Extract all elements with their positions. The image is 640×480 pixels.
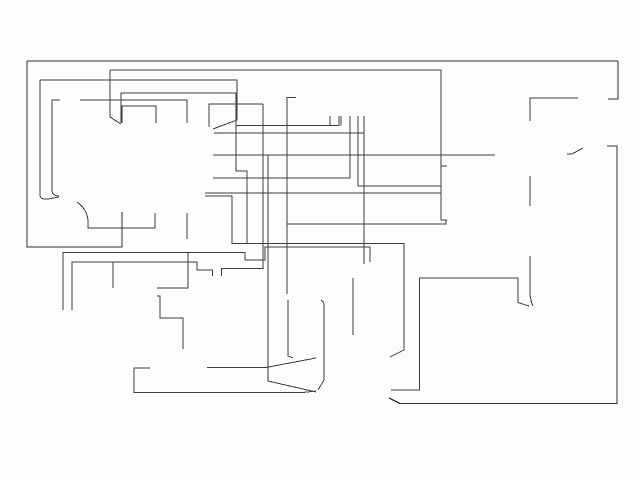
wire OR 14 from timer <box>121 93 247 244</box>
wire YL 45 <box>77 202 155 228</box>
wire OR 20 <box>110 70 441 220</box>
wire WH 22 <box>287 220 446 224</box>
wire EC pin4 lead <box>340 116 342 126</box>
wire N riser <box>72 262 213 310</box>
wire GY 12 <box>157 296 183 349</box>
wire Y-BK 49 top <box>122 106 156 123</box>
wire BK 40 <box>157 253 188 289</box>
wire RD 18 <box>358 116 441 186</box>
wire display feed bottom <box>441 219 447 221</box>
wire WH 38 <box>567 148 583 154</box>
wire OR 14 EC edge connector <box>287 98 296 295</box>
wire EC pin1 lead <box>329 116 331 126</box>
wire RD 42 <box>530 98 578 121</box>
wire OR 14 horizontal to EC pins <box>236 116 339 126</box>
wire PU 46 <box>80 100 187 123</box>
wire WH 16 <box>213 154 495 156</box>
wire RD 11 <box>205 192 441 194</box>
wire BK 54 motor to gas valve <box>391 278 529 390</box>
wire BU 41 <box>134 368 316 393</box>
wire RD 31 <box>205 196 404 357</box>
wire BU 44 right side <box>608 61 618 99</box>
components group placeholder <box>0 0 1 1</box>
wire L1 riser <box>63 247 370 310</box>
wire GY 51 fuse to motor <box>352 278 354 335</box>
wire GY on-light feed <box>222 104 264 276</box>
wire RD 55 hi-limit to valve <box>530 256 533 306</box>
wire display feed top <box>441 165 447 167</box>
wire GY 30 <box>214 132 364 134</box>
wire BK 32 <box>389 146 617 404</box>
wire Y-BK 49 bottom stub <box>186 213 188 239</box>
wire GY 47 <box>40 80 237 129</box>
wire node GY timer top lead <box>209 104 263 127</box>
wire push-start right lead YL 34 <box>318 300 324 390</box>
wire YL 33 <box>207 358 316 367</box>
wire BU 44 left side <box>27 61 122 247</box>
wire BU 44 top border <box>27 60 618 62</box>
wire push-start left lead <box>288 300 293 358</box>
wire WH 43 vertical <box>268 155 316 392</box>
wires group <box>27 61 618 404</box>
wire GY 50 from EC pin5 to thermal fuse <box>363 116 365 264</box>
wire GY 47 left drop to buzzer <box>40 80 59 199</box>
wire GY 52 press care to buzzer <box>52 100 60 196</box>
wire PU 57 <box>529 176 531 206</box>
wire OR 20 drop to timer <box>110 70 121 124</box>
wire BR 15 <box>213 116 350 178</box>
wire lamp left lead <box>112 262 114 288</box>
